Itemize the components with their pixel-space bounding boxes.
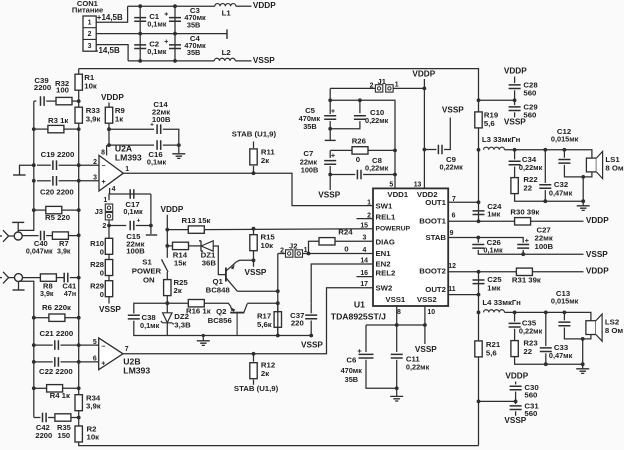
svg-text:1: 1: [88, 19, 92, 26]
svg-text:L4 33мкГн: L4 33мкГн: [482, 298, 521, 307]
jumper pad J1-2: [386, 85, 393, 92]
wire gnd stub LS1: [582, 201, 584, 206]
svg-text:−: −: [101, 344, 105, 351]
svg-text:0,22мк: 0,22мк: [365, 116, 389, 125]
capacitor C28: [509, 85, 521, 89]
resistor R11: [250, 149, 257, 165]
wire jack1 to C40: [22, 235, 38, 237]
svg-text:1: 1: [395, 82, 399, 89]
wire C3 column: [174, 6, 176, 33]
wire BOOT2: [448, 271, 516, 273]
junction: [276, 301, 280, 305]
ground LS1: [577, 206, 590, 211]
svg-text:R31 39к: R31 39к: [512, 276, 541, 285]
svg-text:47н: 47н: [64, 290, 76, 298]
svg-text:POWERUP: POWERUP: [376, 226, 411, 233]
svg-text:9: 9: [450, 230, 454, 237]
resistor R4: [47, 385, 63, 392]
junction: [77, 276, 81, 280]
svg-text:C20 2200: C20 2200: [40, 188, 74, 197]
capacitor C8: [357, 170, 361, 180]
wire J1 right: [393, 87, 424, 89]
junction: [107, 127, 111, 131]
wire C34-R22: [514, 167, 516, 178]
svg-text:STAB (U1,9): STAB (U1,9): [234, 384, 279, 393]
svg-text:100В: 100В: [301, 165, 319, 174]
capacitor C1: [134, 18, 146, 22]
capacitor C41: [64, 273, 68, 283]
wire R12 bottom: [253, 380, 255, 385]
resistor R31: [516, 268, 532, 275]
junction: [513, 98, 517, 102]
wire gnd stub LS2: [582, 364, 584, 369]
resistor R16: [188, 300, 204, 307]
wire zobel ground rail 2: [515, 357, 583, 365]
svg-text:R12: R12: [261, 360, 276, 369]
svg-text:VSS1: VSS1: [385, 295, 406, 304]
junction: [77, 208, 81, 212]
wire R4 right: [63, 387, 79, 389]
junction: [138, 59, 142, 63]
wire pin3 to bottom rail: [96, 45, 128, 61]
svg-text:L1: L1: [222, 8, 232, 17]
svg-text:10: 10: [427, 309, 435, 316]
svg-text:R4 1к: R4 1к: [50, 391, 70, 400]
wire C42-R35: [48, 417, 55, 419]
inductor L4: [484, 310, 505, 313]
capacitor C30: [510, 386, 522, 390]
junction: [477, 293, 481, 297]
junction: [328, 127, 332, 131]
wire LS2 bottom: [583, 335, 591, 339]
junction: [77, 127, 81, 131]
wire C6 bottom: [366, 360, 397, 389]
junction: [544, 362, 548, 366]
svg-text:6: 6: [452, 213, 456, 220]
svg-text:TDA8925ST/J: TDA8925ST/J: [331, 311, 386, 321]
resistor R25: [164, 280, 171, 296]
wire to C15: [109, 225, 126, 227]
svg-text:3: 3: [88, 43, 92, 50]
svg-text:2200: 2200: [35, 431, 52, 440]
svg-text:8 Ом: 8 Ом: [605, 163, 624, 172]
svg-text:22: 22: [523, 183, 532, 192]
inductor L1: [215, 4, 236, 7]
wire plug to jack 1: [9, 235, 14, 237]
wire mid rail: [96, 33, 227, 35]
svg-text:6: 6: [93, 356, 97, 363]
wire Q2 emitter line: [247, 302, 277, 304]
junction: [477, 400, 481, 404]
wire VSS1 column: [396, 306, 398, 352]
svg-text:100: 100: [56, 86, 69, 95]
junction: [202, 334, 205, 337]
svg-text:POWER: POWER: [132, 267, 162, 276]
wire U2B output to SW2: [123, 288, 373, 354]
svg-text:22: 22: [523, 347, 532, 356]
svg-text:0: 0: [100, 269, 104, 278]
svg-text:VSSP: VSSP: [245, 268, 267, 277]
chassis bar C15: [146, 234, 157, 236]
junction: [477, 148, 481, 152]
jumper pad J3-1: [105, 204, 112, 211]
capacitor C3: [169, 18, 181, 22]
wire DZ2 top: [166, 303, 168, 313]
svg-text:100В: 100В: [535, 242, 554, 251]
wire C21 to U2B in: [61, 344, 99, 346]
wire R28-R29: [108, 276, 110, 281]
junction: [521, 252, 525, 256]
wire R32 right: [72, 100, 79, 102]
input 2 plug chevron: [3, 272, 9, 284]
input jack 2: [15, 274, 23, 282]
svg-text:35В: 35В: [345, 375, 358, 384]
wire C17 line: [109, 193, 151, 195]
wire R5 left: [34, 209, 46, 211]
junction: [77, 343, 81, 347]
svg-text:560: 560: [523, 88, 536, 97]
wire R6 right: [65, 317, 79, 319]
svg-text:0,22мк: 0,22мк: [406, 363, 430, 372]
svg-text:1: 1: [103, 197, 107, 204]
junction: [77, 179, 81, 183]
svg-text:J3: J3: [95, 207, 103, 216]
wire C22 to U2B in: [61, 361, 99, 363]
capacitor C2: [134, 45, 146, 49]
junction: [252, 171, 256, 175]
jack1 ground bar: [12, 221, 24, 223]
junction: [107, 143, 111, 147]
speaker LS2: [586, 321, 596, 335]
capacitor C7: [324, 161, 336, 165]
svg-text:SW1: SW1: [376, 201, 394, 210]
wire C4 column: [174, 34, 176, 61]
svg-text:0,047мк: 0,047мк: [26, 248, 53, 256]
svg-text:REL2: REL2: [376, 268, 397, 277]
wire C17/C15 right column: [150, 194, 152, 234]
wire VDD1 column: [330, 100, 395, 188]
svg-text:R5 220: R5 220: [45, 213, 70, 222]
wire C39-R32: [46, 100, 56, 102]
wire J2 right: [303, 253, 309, 255]
svg-text:10к: 10к: [261, 241, 274, 250]
svg-text:1мк: 1мк: [487, 283, 500, 292]
wire U2A pin8 stub: [106, 145, 108, 155]
wire bottom return rail: [79, 442, 479, 446]
chassis bar: [13, 174, 26, 176]
svg-text:15к: 15к: [174, 259, 187, 268]
inductor L3: [484, 147, 505, 150]
jumper pad J1-1: [375, 85, 382, 92]
svg-text:VSSP: VSSP: [415, 345, 437, 354]
wire R26 right: [368, 149, 395, 151]
wire S1 to R25: [166, 272, 168, 280]
wire control line left / C38 top: [134, 303, 168, 313]
junction: [276, 334, 280, 338]
resistor R33: [75, 107, 82, 123]
capacitor C25: [473, 280, 485, 284]
svg-text:VSSP: VSSP: [253, 56, 275, 65]
svg-text:VDDP: VDDP: [253, 1, 276, 10]
capacitor C42: [43, 413, 47, 423]
wire C10 top: [359, 100, 361, 113]
svg-text:4: 4: [362, 247, 366, 254]
svg-text:2: 2: [93, 159, 97, 166]
transistor Q1: [225, 268, 227, 282]
wire C19 to U2A in-: [59, 164, 99, 166]
wire R8-C41: [56, 277, 64, 279]
svg-text:5,6: 5,6: [486, 348, 497, 357]
svg-text:11: 11: [448, 286, 455, 293]
junction: [563, 148, 567, 152]
junction: [165, 244, 169, 248]
svg-text:4: 4: [112, 186, 116, 193]
junction: [138, 4, 142, 8]
svg-text:C22 2200: C22 2200: [39, 367, 73, 376]
wire C32 top: [544, 150, 546, 183]
junction: [173, 4, 177, 8]
junction: [358, 98, 362, 102]
svg-text:0,015мк: 0,015мк: [551, 135, 579, 144]
svg-text:10к: 10к: [87, 432, 100, 441]
wire LS1 return: [582, 177, 584, 201]
wire REL1 stub: [357, 218, 374, 220]
capacitor C13: [558, 322, 570, 326]
svg-text:VDDP: VDDP: [505, 372, 528, 381]
svg-text:1: 1: [367, 199, 371, 206]
wire R14-DZ1: [189, 245, 201, 247]
junction: [252, 227, 256, 231]
capacitor C15: [130, 221, 134, 231]
input 1 plug chevron: [3, 230, 9, 242]
wire C2 column: [139, 34, 141, 61]
junction: [77, 163, 81, 167]
wire C32 bottom: [544, 190, 546, 201]
wire Q1 collector line: [237, 290, 277, 292]
wire main bus: [78, 123, 80, 395]
svg-text:R30 39к: R30 39к: [510, 208, 539, 217]
svg-text:0,1мк: 0,1мк: [147, 47, 167, 56]
wire C20 left: [37, 180, 51, 182]
wire ground bus lower: [19, 281, 34, 417]
svg-text:560: 560: [524, 390, 537, 399]
svg-text:R24: R24: [338, 228, 353, 237]
wire L1 to VDDP: [236, 5, 252, 7]
capacitor C12: [558, 160, 570, 164]
svg-text:C19 2200: C19 2200: [41, 150, 75, 159]
jumper pad J2-2: [295, 250, 302, 257]
wire C7 bottom: [329, 166, 331, 190]
wire BOOT1: [448, 220, 514, 222]
svg-text:0,1мк: 0,1мк: [123, 207, 143, 216]
wire C28-C29: [514, 90, 516, 105]
wire R34-R2: [78, 411, 80, 427]
wire R4 left: [34, 387, 47, 389]
svg-text:7: 7: [125, 346, 129, 353]
svg-text:0,22мк: 0,22мк: [519, 327, 543, 336]
wire C15 right: [136, 225, 151, 227]
capacitor C29: [509, 107, 521, 111]
svg-text:R26: R26: [352, 136, 367, 145]
svg-text:35В: 35В: [303, 122, 316, 131]
svg-text:VDDP: VDDP: [586, 216, 609, 225]
junction: [395, 323, 399, 327]
capacitor C31: [510, 406, 522, 410]
capacitor C5: [324, 116, 336, 120]
svg-text:0,22мк: 0,22мк: [519, 163, 543, 172]
svg-text:560: 560: [524, 409, 537, 418]
svg-text:3,9к: 3,9к: [57, 248, 71, 256]
svg-text:36В: 36В: [202, 259, 217, 268]
wire chassis stub: [20, 165, 34, 174]
wire C38 bottom to ground line: [134, 321, 168, 336]
svg-text:VSSP: VSSP: [442, 106, 464, 115]
svg-text:REL1: REL1: [376, 213, 397, 222]
wire L3 line to LS1: [505, 150, 592, 158]
svg-text:VSSP: VSSP: [504, 416, 526, 425]
mid rail terminator: [226, 29, 228, 39]
junction: [252, 258, 256, 262]
svg-text:0,1мк: 0,1мк: [147, 19, 167, 28]
resistor R10: [105, 238, 112, 254]
svg-text:VSS2: VSS2: [417, 295, 438, 304]
wire jack1 ground stub: [17, 223, 19, 232]
wire C26 top: [477, 238, 479, 243]
junction: [77, 416, 81, 420]
wire EN2 down: [311, 264, 373, 303]
op-amp U2A: [99, 155, 123, 191]
wire C30 top: [515, 382, 517, 385]
capacitor C20: [53, 176, 57, 186]
svg-text:+: +: [137, 218, 141, 225]
wire plug to jack 2: [9, 277, 15, 279]
wire R35 right: [71, 417, 79, 419]
wire R1 top: [78, 69, 80, 75]
wire J2 left: [278, 253, 286, 255]
resistor R28: [105, 260, 112, 276]
svg-text:5,6: 5,6: [484, 119, 495, 128]
junction: [477, 219, 481, 223]
IC U1 TDA8925ST/J body: [373, 188, 448, 306]
wire C37 bottom: [310, 321, 312, 336]
junction: [177, 143, 181, 147]
input jack 1: [14, 232, 22, 240]
junction: [477, 270, 481, 274]
resistor R29: [105, 281, 112, 297]
resistor R17: [274, 312, 281, 328]
wire C13 top: [563, 312, 565, 320]
wire DZ2 bottom: [166, 323, 168, 336]
capacitor C4: [169, 45, 181, 49]
wire OUT1-BOOT1 column: [478, 202, 480, 221]
svg-text:2к: 2к: [261, 369, 269, 378]
svg-text:BC848: BC848: [206, 286, 231, 295]
junction: [307, 252, 311, 256]
junction: [77, 233, 81, 237]
wire C33 bottom: [545, 353, 547, 364]
wire to R16: [167, 302, 188, 304]
wire zobel ground rail 1: [515, 194, 584, 202]
wire J3 pin2 down: [108, 220, 110, 239]
svg-text:13: 13: [414, 181, 422, 188]
capacitor C6: [359, 354, 374, 358]
capacitor C35: [509, 323, 521, 327]
svg-text:S1: S1: [142, 258, 152, 267]
svg-text:VDDP: VDDP: [101, 93, 124, 102]
wire jack2 ground stub: [18, 282, 20, 290]
junction: [138, 32, 142, 36]
svg-text:BOOT2: BOOT2: [419, 267, 446, 276]
resistor R7: [52, 232, 68, 239]
junction: [276, 289, 280, 293]
svg-text:35В: 35В: [187, 48, 200, 57]
wire U2A output to SW1: [123, 173, 373, 205]
junction: [513, 311, 517, 315]
transistor Q2: [230, 312, 244, 314]
wire LS2 return: [582, 339, 584, 364]
wire R7 right: [68, 235, 78, 237]
svg-text:−: −: [102, 163, 106, 170]
svg-text:0: 0: [344, 245, 348, 254]
wire VDD2 column: [423, 79, 425, 188]
junction: [544, 311, 548, 315]
svg-text:BC856: BC856: [208, 316, 233, 325]
svg-text:C41: C41: [62, 281, 76, 290]
junction: [476, 236, 480, 240]
svg-text:2: 2: [103, 223, 107, 230]
svg-text:0,1мк: 0,1мк: [140, 321, 160, 330]
wire OUT2 down: [478, 295, 480, 341]
wire C7 top / R26 left: [330, 149, 352, 151]
capacitor C27: [517, 245, 529, 249]
wire C26/C27 bottom to VSSP: [478, 250, 583, 254]
ground C14/C16: [172, 154, 185, 159]
svg-text:5,6к: 5,6к: [257, 320, 272, 329]
wire to C16: [109, 144, 154, 146]
wire C11 bottom: [396, 360, 398, 396]
svg-text:0,015мк: 0,015мк: [551, 297, 579, 306]
svg-text:1мк: 1мк: [487, 209, 500, 218]
svg-text:100В: 100В: [152, 115, 171, 124]
input 1 stub: [0, 235, 2, 237]
junction: [149, 224, 153, 228]
svg-text:2200: 2200: [34, 83, 51, 92]
wire R31 to VDDP: [532, 271, 583, 273]
svg-text:0: 0: [356, 155, 360, 164]
wire C30-C31: [515, 392, 517, 405]
capacitor C11: [391, 354, 403, 358]
svg-text:5: 5: [93, 339, 97, 346]
resistor R14: [173, 242, 189, 249]
wire C41 right: [70, 277, 79, 279]
junction: [581, 175, 585, 179]
resistor R22: [511, 178, 518, 194]
wire VSSP stub Q1: [253, 260, 255, 267]
junction: [32, 208, 36, 212]
junction: [165, 301, 169, 305]
resistor R13: [188, 226, 204, 233]
resistor R8: [40, 274, 56, 281]
resistor R34: [75, 395, 82, 411]
wire bottom rail: [128, 60, 214, 62]
junction: [32, 179, 36, 183]
wire R25 bottom: [166, 295, 168, 303]
wire L2 to VSSP: [235, 60, 251, 62]
svg-text:+14,5В: +14,5В: [97, 13, 123, 22]
svg-text:L3 33мкГн: L3 33мкГн: [482, 135, 521, 144]
svg-text:0,1мк: 0,1мк: [483, 246, 503, 255]
svg-text:17: 17: [360, 281, 368, 288]
